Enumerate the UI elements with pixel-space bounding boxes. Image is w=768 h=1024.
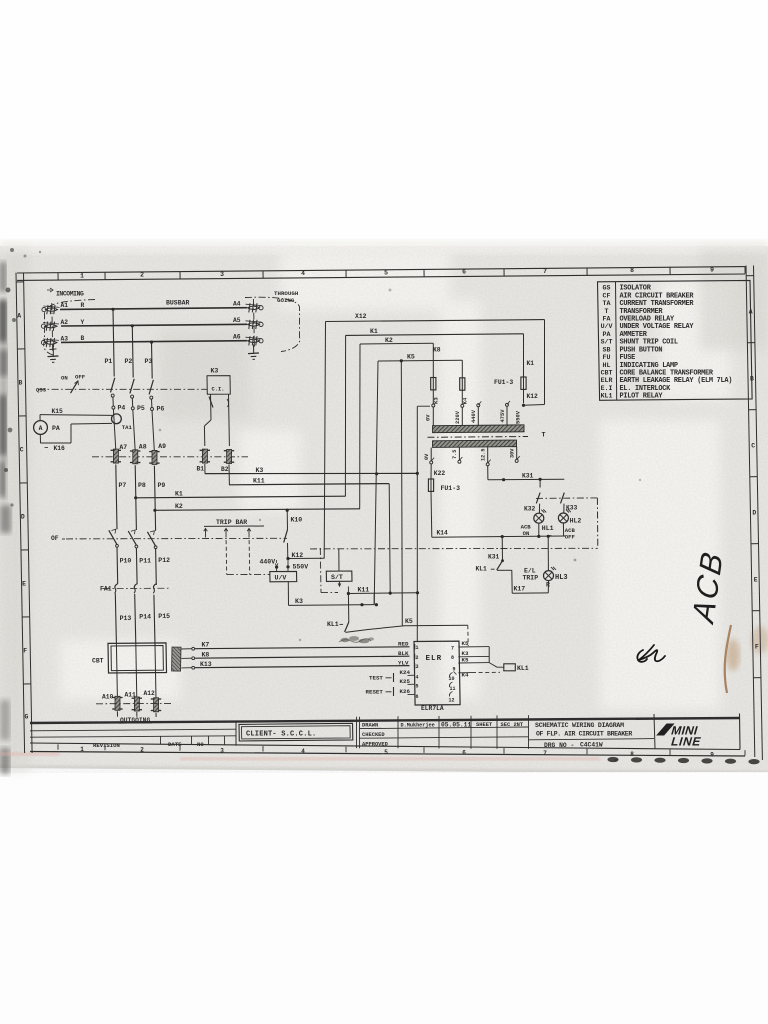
lamp HL3 — [544, 571, 554, 581]
wire X12 right riser — [544, 320, 546, 405]
wire P10 down — [116, 547, 119, 583]
wire P15 down — [154, 595, 155, 645]
wire K13 — [195, 666, 410, 668]
trip bar dashed drops — [205, 534, 207, 539]
earth symbol through going — [253, 345, 255, 354]
riser from K5 line to ELR — [400, 359, 403, 362]
outgoing CT dash-dot — [96, 702, 172, 704]
fuse FU1-3 right — [521, 377, 526, 389]
wire K11 long — [228, 464, 230, 484]
trip bar arrows — [204, 529, 208, 534]
isolator A1 — [42, 308, 46, 312]
contact K33 — [561, 493, 565, 504]
wire KL1 to K17 corner — [497, 569, 505, 571]
wire ST top to interlock — [338, 549, 340, 572]
wire HL2 to K14 — [562, 523, 564, 536]
frame right zone strip — [746, 266, 755, 758]
CBT box — [108, 643, 167, 673]
frame left zone strip — [16, 273, 25, 753]
busbar B phase — [61, 341, 247, 343]
aux switch box K3 C.I. — [207, 376, 230, 395]
wire K3 bottom — [289, 604, 375, 607]
node K12 — [286, 557, 289, 560]
isolator linkage dash-dot — [51, 303, 54, 352]
wire P3 drop — [151, 342, 154, 378]
breaker pole contact P3 — [149, 380, 153, 395]
wires to outgoing — [116, 711, 118, 716]
logo column — [654, 714, 655, 749]
isolator A5 — [259, 322, 263, 326]
CT A11 — [132, 697, 142, 699]
riser K5 left — [374, 361, 378, 605]
busbar R phase — [60, 308, 247, 310]
wires through CBT — [116, 643, 117, 697]
CT A9 — [149, 451, 159, 453]
fuse FU1-3 mid — [460, 378, 465, 390]
ammeter PA — [34, 421, 48, 435]
wire 0V tap down — [430, 464, 432, 479]
pink streak bottom — [180, 757, 600, 761]
title mid columns — [356, 717, 358, 748]
KL1 coil bracket — [488, 647, 490, 663]
wire fuse to 0V tap — [432, 390, 434, 404]
wire K31 rail — [488, 478, 564, 481]
wire HL3 bottom — [547, 581, 549, 593]
wire K15 — [39, 415, 41, 421]
fuse FU1-3 secondary — [428, 479, 433, 491]
ST shunt trip coil box — [326, 571, 352, 581]
CBT secondary terminals — [192, 647, 195, 650]
legend table box — [598, 280, 753, 400]
wire K3 box to B2 — [228, 394, 231, 446]
scan speckles — [4, 248, 641, 762]
client box — [235, 721, 237, 746]
wire fuse to 220V tap — [461, 390, 463, 404]
wire K17 bottom — [512, 592, 548, 594]
contact KL1 pilot — [347, 594, 349, 623]
contact K32 — [539, 480, 541, 488]
handwritten R scribble — [637, 645, 665, 662]
wire K2 right riser to fuse — [432, 343, 434, 377]
ELR pin K5 lower — [458, 662, 489, 664]
wire P1 drop — [113, 309, 114, 376]
trip bar line — [204, 525, 264, 527]
OF dash-dot line right — [310, 547, 598, 550]
wire P11 down — [135, 548, 138, 584]
title block right edge — [739, 714, 742, 750]
wire K16 loop — [39, 434, 41, 443]
wire K31 branch down — [501, 535, 504, 538]
CT A12 — [151, 698, 161, 700]
KL1 coil — [489, 663, 497, 668]
CT B1 — [200, 449, 210, 451]
primary winding bar — [432, 407, 434, 427]
wire K1 long — [134, 496, 137, 499]
dash-dot below UV to ST — [319, 548, 322, 593]
through going linkage dash-dot — [253, 299, 256, 349]
wire HL1 to K14 — [538, 523, 540, 536]
legend table divider — [616, 282, 617, 400]
wire K3 long — [204, 464, 206, 474]
wire X12 left riser — [324, 322, 325, 559]
dash-dot to UV box — [227, 573, 270, 575]
miniline logo — [652, 724, 706, 749]
wire P5 pole down — [133, 410, 135, 451]
wire K2 long — [153, 509, 156, 512]
wire fuse to K14 rail — [430, 491, 433, 537]
wire K11 lower — [389, 484, 390, 593]
wire P9 pole down — [154, 466, 155, 531]
frame bottom outer lines — [30, 743, 740, 750]
isolator A6 — [259, 339, 263, 343]
node P2 tap — [131, 324, 134, 327]
isolator A3 — [41, 341, 45, 345]
CT B2 — [224, 450, 234, 452]
wire K8 — [195, 656, 410, 658]
node P3 tap — [150, 341, 153, 344]
pole contact gap links — [112, 397, 114, 406]
title block left revision strip — [30, 729, 236, 731]
wire KL1 to ELR pin7 line — [345, 626, 404, 633]
breaker pole contact P1 — [111, 378, 115, 393]
wire K7 — [195, 647, 410, 649]
wire K1 right riser to fuse — [523, 334, 525, 377]
wire K5 right riser to fuse — [461, 360, 463, 377]
secondary winding bar — [432, 440, 516, 447]
incoming isolator enclosure dash-dot — [44, 300, 95, 357]
isolator A4 — [259, 306, 263, 310]
OF contact P10 — [109, 530, 117, 545]
paper light patches — [60, 250, 730, 710]
wire ST bottom — [338, 582, 340, 586]
wire P13 down — [115, 593, 116, 643]
QS3 trip dash-dot line — [38, 388, 207, 390]
wire P4 pole through TA1 — [113, 409, 115, 450]
perforation dots row — [607, 757, 759, 764]
primary tap terminals — [432, 404, 435, 407]
UV undervoltage relay box — [270, 571, 297, 581]
FA1 dash-dot — [103, 587, 170, 589]
wire P6 pole down — [152, 410, 154, 452]
wire P8 pole down — [135, 465, 136, 530]
fuse FU1-3 left — [431, 378, 436, 390]
frame bottom title top thick line — [30, 718, 740, 723]
wire HL3 top to K14 — [547, 535, 550, 538]
wire 12.5 tap to K31 rail — [487, 466, 489, 480]
wire K4 dashed — [458, 672, 472, 674]
isolator A2 — [41, 324, 45, 328]
CT A10 — [112, 697, 122, 699]
wire K14 rail — [432, 536, 566, 537]
wire fuse to 550V tap — [523, 389, 525, 403]
lamp HL1 — [534, 513, 544, 523]
lamp HL2 — [558, 513, 568, 523]
drawing frame top zone strip — [17, 267, 745, 273]
wire UV bottom to K3 wire — [287, 582, 289, 605]
wire ST bottom junction riser — [347, 586, 349, 593]
ELR box — [414, 641, 460, 705]
contact KL1 e/l — [497, 561, 503, 570]
dash-dot enclosure lamps — [536, 497, 597, 500]
scribble blotch — [341, 636, 375, 643]
node 440V — [275, 566, 278, 569]
OF contact P11 — [128, 531, 136, 546]
through going enclosure dash-dot — [245, 297, 300, 351]
wire P14 down — [135, 594, 136, 644]
CT dash-dot row — [92, 456, 248, 458]
wire K2 left riser — [359, 344, 361, 509]
secondary tap terminals — [430, 448, 432, 461]
riser K11 to lower wire — [373, 593, 375, 605]
CT A8 — [130, 450, 140, 452]
OF contact P12 — [147, 532, 155, 547]
breaker pole contact P2 — [130, 379, 134, 394]
busbar Y phase — [61, 324, 247, 326]
node P1 tap — [111, 308, 114, 311]
bottom zone ticks and numbers — [57, 744, 59, 750]
current transformer TA1 — [112, 414, 122, 424]
earth symbol incoming — [52, 347, 54, 357]
node 550V — [286, 565, 289, 568]
wire P12 down — [155, 549, 158, 585]
wire X12 jog to K12 node — [288, 557, 324, 559]
transformer core dash-dot — [428, 436, 529, 439]
wire K1 left riser — [344, 335, 346, 496]
CBT window hatched — [172, 647, 181, 671]
left edge photocopy smudges — [0, 262, 11, 774]
riser K5-left to K3 bottom wire — [375, 603, 378, 606]
wire P7 pole down — [116, 465, 117, 530]
CT A7 — [111, 449, 121, 451]
paper grain — [0, 246, 768, 773]
wire P2 drop — [131, 326, 134, 378]
brown stain right edge — [725, 625, 731, 693]
riser 0V primary to ELR box — [417, 405, 430, 407]
wire K3 box to B1 — [210, 394, 213, 420]
